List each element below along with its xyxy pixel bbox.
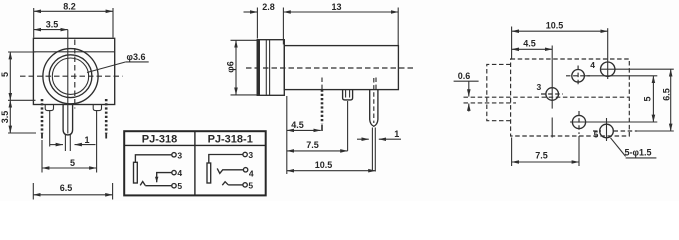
svg-text:4: 4 xyxy=(177,168,182,178)
pin 3 axis (dashed) xyxy=(373,78,375,123)
right shoulder tab xyxy=(93,105,101,111)
table outer border xyxy=(124,131,266,195)
svg-text:7.5: 7.5 xyxy=(306,140,319,150)
left lug pin (hatched) xyxy=(41,99,44,134)
hole D xyxy=(570,111,588,166)
center pin axis line (solid) xyxy=(67,30,69,134)
pin 2 (short clip) xyxy=(343,90,353,100)
PJ-318-1 wire from 4 with contact xyxy=(217,168,243,173)
svg-text:5: 5 xyxy=(0,72,10,77)
right lug pin (hatched) xyxy=(105,99,108,134)
center pin (round, U tip) xyxy=(63,105,73,135)
svg-text:13: 13 xyxy=(331,2,341,12)
svg-text:PJ-318: PJ-318 xyxy=(142,133,177,145)
dimension 13 xyxy=(283,2,398,45)
dimension 3.5 (top) xyxy=(34,19,68,29)
svg-text:4.5: 4.5 xyxy=(523,39,536,49)
leader 5-φ1.5 xyxy=(611,138,657,158)
hole E (pin 5) xyxy=(593,118,637,141)
barrel centerline (dashed) xyxy=(246,67,413,69)
barrel outer circle xyxy=(43,49,98,104)
flange inner line b xyxy=(269,40,271,96)
extension line hole A row xyxy=(585,75,658,77)
center pin lower shank xyxy=(64,135,66,151)
svg-text:φ6: φ6 xyxy=(226,61,236,72)
svg-text:φ3.6: φ3.6 xyxy=(127,52,146,62)
slot line upper (dashed) xyxy=(464,96,630,98)
PJ-318-1 terminal 3 xyxy=(243,152,247,156)
hole B (pin 4) xyxy=(600,28,616,79)
hidden line pin1 xyxy=(321,78,323,90)
svg-text:3: 3 xyxy=(177,150,182,160)
horizontal centerline (dashed) xyxy=(20,75,123,77)
flange outline xyxy=(257,40,284,96)
svg-text:3.5: 3.5 xyxy=(46,19,59,29)
body seam line xyxy=(33,51,114,53)
dimension 10.5 (right view) xyxy=(512,21,608,59)
dimension 0.6 xyxy=(454,71,479,112)
PJ-318 wire to terminal 3 xyxy=(135,155,172,163)
flange thick left face xyxy=(257,40,260,96)
svg-text:3: 3 xyxy=(248,150,253,160)
pin 3 lower shank xyxy=(371,128,373,172)
left shoulder tab xyxy=(45,105,53,111)
hole C lower line xyxy=(551,118,553,138)
dimension 3.5 (left side) xyxy=(0,100,36,133)
PJ-318 terminal 4 xyxy=(172,170,176,174)
dimension 5 (right view vertical) xyxy=(643,76,654,122)
svg-text:5: 5 xyxy=(177,181,182,191)
PJ-318-1 wire to terminal 3 xyxy=(209,155,243,164)
svg-text:5: 5 xyxy=(594,129,599,139)
left lug pin tip xyxy=(41,134,43,139)
extension line hole B row xyxy=(615,68,674,70)
table column divider xyxy=(194,131,196,195)
svg-text:5: 5 xyxy=(70,158,75,168)
barrel ring circle xyxy=(49,55,92,98)
svg-text:4: 4 xyxy=(590,60,595,70)
dimension 6.5 (bottom) xyxy=(33,183,112,200)
footprint outline (dashed) xyxy=(511,59,630,136)
pin 2 extension line xyxy=(347,101,349,151)
svg-text:3: 3 xyxy=(537,82,542,92)
dimension 7.5 (right view) xyxy=(512,138,579,167)
PJ-318 switch break xyxy=(140,182,145,186)
dimension 7.5 xyxy=(287,140,348,151)
svg-text:5: 5 xyxy=(643,96,653,101)
svg-text:PJ-318-1: PJ-318-1 xyxy=(208,133,253,145)
table header separator xyxy=(124,144,266,146)
svg-text:1: 1 xyxy=(84,135,89,145)
leader φ3.6 xyxy=(87,52,149,72)
PJ-318-1 terminal 5 xyxy=(243,183,247,187)
pin 1 (hatched lug) xyxy=(321,90,324,124)
dimension 2.8 xyxy=(244,2,284,44)
extension line hole D row xyxy=(586,121,658,123)
svg-text:0.6: 0.6 xyxy=(458,71,471,81)
PJ-318 wire from 5 xyxy=(145,185,172,187)
dimension 8.2 xyxy=(34,2,113,38)
side tab (dashed) xyxy=(487,64,511,120)
right inner pin / extension xyxy=(96,111,98,173)
dimension 1 (pin 3) xyxy=(357,129,401,139)
svg-text:4.5: 4.5 xyxy=(291,120,304,130)
PJ-318 sleeve contact xyxy=(134,162,138,183)
hole circle (φ3.6) xyxy=(52,58,88,94)
dimension 6.5 (right view vertical) xyxy=(662,69,672,131)
left inner pin xyxy=(49,111,51,147)
common extension line xyxy=(286,96,288,174)
svg-text:10.5: 10.5 xyxy=(315,160,333,170)
PJ-318-1 wire from 5 xyxy=(228,184,243,186)
pin 1 tip xyxy=(321,125,323,132)
svg-text:1: 1 xyxy=(394,129,399,139)
svg-text:8.2: 8.2 xyxy=(63,2,76,12)
barrel outline xyxy=(284,46,398,90)
svg-text:5-φ1.5: 5-φ1.5 xyxy=(625,147,652,157)
PJ-318-1 terminal 4 xyxy=(243,168,247,172)
PJ-318 terminal 3 xyxy=(172,153,176,157)
PJ-318-1 sleeve contact xyxy=(207,163,211,183)
svg-text:10.5: 10.5 xyxy=(546,21,564,31)
dimension 5 (left side) xyxy=(0,52,35,100)
svg-text:5: 5 xyxy=(248,180,253,190)
hidden line pin3 xyxy=(375,78,377,90)
svg-text:7.5: 7.5 xyxy=(535,151,548,161)
dimension 4.5 (right view) xyxy=(512,39,553,50)
hole A xyxy=(566,66,590,87)
pin 3 (round pin) xyxy=(370,90,378,127)
svg-text:6.5: 6.5 xyxy=(662,88,672,101)
dimension 1 (center pin) xyxy=(50,135,96,145)
PJ-318 wire from 4 with arrow xyxy=(157,173,172,183)
dimension 4.5 xyxy=(287,120,321,131)
svg-text:4: 4 xyxy=(249,169,254,179)
hole C (pin 3) xyxy=(541,46,563,109)
flange inner line a xyxy=(265,40,267,96)
PJ-318-1 switch break xyxy=(222,182,228,186)
dimension 5 (bottom) xyxy=(42,140,97,173)
PJ-318 terminal 5 xyxy=(172,184,176,188)
svg-text:2.8: 2.8 xyxy=(262,2,275,12)
extension line hole E row xyxy=(637,130,674,132)
dimension 10.5 xyxy=(287,160,376,171)
svg-text:6.5: 6.5 xyxy=(60,183,73,193)
vertical centerline (dashed) xyxy=(74,40,76,109)
jack body outline xyxy=(33,38,114,104)
svg-text:3.5: 3.5 xyxy=(0,111,10,124)
slot line lower (dashed) xyxy=(464,102,517,104)
right lug pin tip xyxy=(105,134,107,139)
dimension φ6 xyxy=(226,40,257,95)
